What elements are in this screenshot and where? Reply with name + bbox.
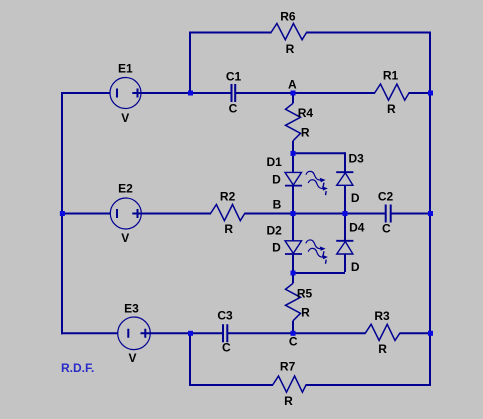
svg-text:D: D <box>272 173 281 187</box>
svg-text:V: V <box>128 351 136 365</box>
svg-text:R: R <box>378 342 387 356</box>
svg-text:R.D.F.: R.D.F. <box>61 361 94 375</box>
svg-text:R: R <box>224 222 233 236</box>
svg-text:B: B <box>273 198 282 212</box>
svg-text:E1: E1 <box>118 62 133 76</box>
svg-text:D4: D4 <box>349 221 365 235</box>
svg-text:C: C <box>382 222 391 236</box>
svg-text:V: V <box>121 111 129 125</box>
svg-text:C: C <box>222 340 231 354</box>
svg-text:R1: R1 <box>383 69 399 83</box>
svg-text:D: D <box>351 260 360 274</box>
svg-text:R: R <box>284 394 293 408</box>
svg-text:R4: R4 <box>298 106 314 120</box>
svg-text:D3: D3 <box>349 152 365 166</box>
svg-text:A: A <box>288 77 297 91</box>
svg-text:R5: R5 <box>297 287 313 301</box>
svg-text:R3: R3 <box>374 309 390 323</box>
svg-text:R6: R6 <box>280 10 296 24</box>
svg-text:C: C <box>229 102 238 116</box>
svg-text:D1: D1 <box>267 155 283 169</box>
svg-text:R: R <box>387 102 396 116</box>
svg-text:R7: R7 <box>280 360 296 374</box>
svg-text:C3: C3 <box>217 308 233 322</box>
svg-text:V: V <box>121 231 129 245</box>
svg-text:C: C <box>289 334 298 348</box>
svg-text:E2: E2 <box>118 182 133 196</box>
svg-text:R: R <box>301 306 310 320</box>
svg-text:C2: C2 <box>378 189 394 203</box>
svg-text:R2: R2 <box>220 190 236 204</box>
svg-text:D2: D2 <box>267 224 283 238</box>
svg-text:E3: E3 <box>124 302 139 316</box>
svg-text:R: R <box>301 126 310 140</box>
svg-text:C1: C1 <box>226 70 242 84</box>
svg-text:D: D <box>351 191 360 205</box>
svg-text:R: R <box>286 42 295 56</box>
svg-text:D: D <box>272 241 281 255</box>
